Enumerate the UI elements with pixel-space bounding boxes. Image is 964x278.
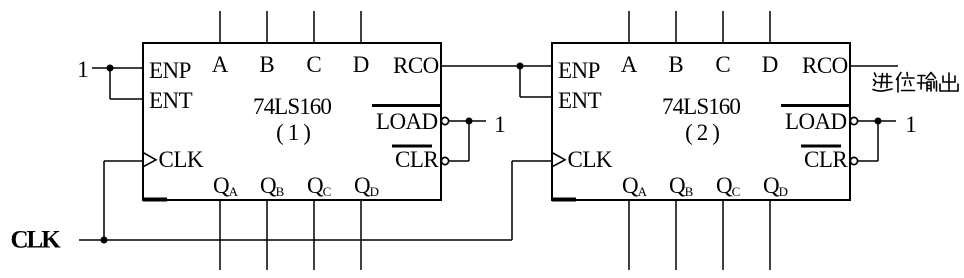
wire CLK into U1 CLK pin xyxy=(104,160,143,162)
wire down to U1 CLR level xyxy=(468,121,470,161)
wire CLK main horizontal xyxy=(79,239,512,241)
U1 pin QD bottom lead xyxy=(360,200,362,270)
svg-text:74LS160: 74LS160 xyxy=(662,94,740,119)
U2 LOAD overline xyxy=(781,104,850,107)
U1 pin QB bottom lead xyxy=(266,200,268,270)
svg-text:74LS160: 74LS160 xyxy=(253,94,331,119)
svg-text:LOAD: LOAD xyxy=(785,109,846,134)
svg-text:(2): (2) xyxy=(685,120,724,145)
U2 LOAD inversion bubble xyxy=(850,117,857,124)
svg-text:RCO: RCO xyxy=(393,53,439,78)
U1 pin QC bottom lead xyxy=(313,200,315,270)
svg-text:ENP: ENP xyxy=(149,58,191,83)
U1 thick bottom-left corner mark xyxy=(143,198,167,202)
U1 pin A top lead xyxy=(219,11,221,43)
wire down to U2 CLR level xyxy=(877,121,879,161)
svg-text:CLR: CLR xyxy=(804,147,848,172)
svg-text:D: D xyxy=(353,52,370,77)
U2 CLR inversion bubble xyxy=(850,157,857,164)
U1 CLK edge-trigger triangle xyxy=(143,153,156,167)
svg-text:ENT: ENT xyxy=(149,88,193,113)
node dot on ENP wire xyxy=(107,65,114,72)
svg-text:A: A xyxy=(621,52,638,77)
wire 1 to U1 ENP xyxy=(92,67,143,69)
svg-text:LOAD: LOAD xyxy=(376,109,437,134)
label carry output (Chinese) xyxy=(873,73,958,93)
U2 pin C top lead xyxy=(722,11,724,43)
svg-text:1: 1 xyxy=(494,112,506,137)
U1 CLR inversion bubble xyxy=(441,157,448,164)
svg-text:B: B xyxy=(259,52,274,77)
svg-text:ENP: ENP xyxy=(558,58,600,83)
U2 pin A top lead xyxy=(628,11,630,43)
svg-text:RCO: RCO xyxy=(802,53,848,78)
node dot on RCO wire xyxy=(517,63,524,70)
wire U2 RCO output xyxy=(850,65,898,67)
svg-text:CLK: CLK xyxy=(568,147,613,172)
counter U2 74LS160 (2) body xyxy=(552,43,850,200)
wire to U2 CLR bubble xyxy=(858,160,878,162)
svg-text:C: C xyxy=(715,52,730,77)
svg-text:A: A xyxy=(212,52,229,77)
U2 pin D top lead xyxy=(769,11,771,43)
U1 CLR overline xyxy=(392,145,432,148)
svg-text:D: D xyxy=(762,52,779,77)
wire to U2 ENT xyxy=(520,96,552,98)
wire U1 RCO to U2 ENP xyxy=(441,65,552,67)
wire CLK into U2 CLK pin xyxy=(512,160,552,162)
U1 pin B top lead xyxy=(266,11,268,43)
wire dot down to ENT level xyxy=(519,66,521,97)
U2 pin QB bottom lead xyxy=(675,200,677,270)
counter U1 74LS160 (1) body xyxy=(143,43,441,200)
wire to U1 ENT xyxy=(110,98,143,100)
wire CLK up to U2 xyxy=(511,161,513,240)
svg-text:C: C xyxy=(306,52,321,77)
node dot on U2 LOAD wire xyxy=(875,118,882,125)
U1 LOAD inversion bubble xyxy=(441,117,448,124)
node dot on CLK wire xyxy=(101,237,108,244)
svg-text:CLR: CLR xyxy=(395,147,439,172)
U1 pin C top lead xyxy=(313,11,315,43)
U1 pin D top lead xyxy=(360,11,362,43)
svg-text:B: B xyxy=(668,52,683,77)
svg-text:CLK: CLK xyxy=(11,227,62,254)
node dot on U1 LOAD wire xyxy=(466,118,473,125)
U2 CLK edge-trigger triangle xyxy=(552,153,565,167)
U2 CLR overline xyxy=(801,145,841,148)
U1 LOAD overline xyxy=(372,104,441,107)
U2 pin QD bottom lead xyxy=(769,200,771,270)
U2 pin B top lead xyxy=(675,11,677,43)
svg-text:CLK: CLK xyxy=(159,147,204,172)
svg-text:1: 1 xyxy=(905,112,917,137)
U2 pin QA bottom lead xyxy=(628,200,630,270)
svg-text:ENT: ENT xyxy=(558,88,602,113)
U1 pin QA bottom lead xyxy=(219,200,221,270)
svg-text:(1): (1) xyxy=(276,120,315,145)
wire CLK up to U1 xyxy=(103,161,105,240)
wire to U1 CLR bubble xyxy=(449,160,469,162)
U2 pin QC bottom lead xyxy=(722,200,724,270)
wire U1 LOAD bubble right xyxy=(449,120,486,122)
wire dot down xyxy=(109,68,111,99)
svg-text:1: 1 xyxy=(77,57,89,82)
wire U2 LOAD bubble right xyxy=(858,120,896,122)
U2 thick bottom-left corner mark xyxy=(552,198,576,202)
